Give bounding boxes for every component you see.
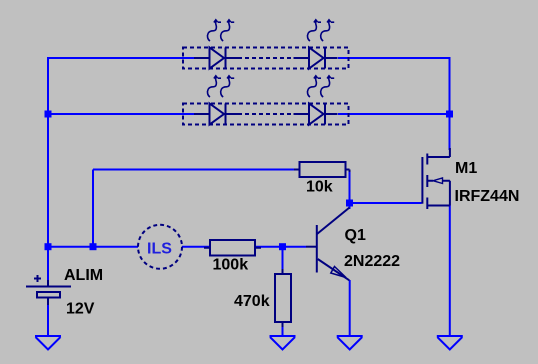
wire junction to 470k top	[282, 247, 284, 274]
junction node battery plus	[45, 243, 52, 250]
battery ALIM	[26, 275, 71, 305]
ground 470k	[270, 336, 296, 350]
wire source to ground	[449, 206, 451, 337]
junction node row2 right	[446, 111, 453, 118]
wire row2 left	[48, 113, 194, 115]
lamp enclosure row2	[183, 104, 349, 125]
LED D3 emission arrows	[207, 76, 234, 97]
dashed link row1	[238, 57, 295, 59]
ground emitter	[337, 336, 363, 350]
LED D4 emission arrows	[307, 76, 334, 97]
svg-text:M1: M1	[455, 160, 477, 177]
wire 10k left horizontal	[93, 169, 300, 171]
ground battery	[35, 336, 61, 350]
wire 100k to base	[255, 246, 306, 248]
svg-text:470k: 470k	[234, 293, 270, 310]
LED D1	[194, 48, 238, 69]
wire 470k bottom to ground	[282, 322, 284, 336]
ground source	[437, 336, 463, 350]
resistor 470k	[275, 269, 291, 327]
junction node row2 left	[45, 111, 52, 118]
LED D1 emission arrows	[207, 20, 234, 41]
mosfet M1	[422, 148, 450, 209]
LED D3	[194, 104, 238, 125]
svg-text:100k: 100k	[213, 257, 249, 274]
reed switch ILS	[138, 225, 182, 269]
wire row2 right	[338, 113, 450, 115]
dashed link row2	[238, 113, 295, 115]
wire 10k right vertical	[349, 171, 351, 203]
svg-text:2N2222: 2N2222	[344, 253, 400, 270]
wire 10k left vertical	[92, 170, 94, 247]
wire top rail row1 left	[48, 57, 194, 59]
LED D2	[294, 48, 338, 69]
wire ILS to 100k	[182, 246, 210, 248]
wire left vertical	[47, 57, 49, 283]
svg-text:ALIM: ALIM	[64, 267, 103, 284]
svg-text:IRFZ44N: IRFZ44N	[455, 188, 520, 205]
wire top rail row1 right	[338, 57, 450, 59]
lamp enclosure row1	[183, 48, 349, 69]
transistor Q1	[306, 208, 350, 281]
svg-text:12V: 12V	[66, 301, 95, 318]
junction node collector gate	[346, 200, 353, 207]
junction node 10k tap	[90, 243, 97, 250]
resistor 10k	[294, 162, 350, 177]
junction node base divider	[279, 243, 286, 250]
LED D4	[294, 104, 338, 125]
wire emitter to ground	[349, 280, 351, 336]
svg-text:Q1: Q1	[345, 227, 366, 244]
LED D2 emission arrows	[307, 20, 334, 41]
wire gate horizontal	[350, 202, 422, 204]
wire collector stub	[349, 203, 351, 209]
wire battery minus to ground	[47, 298, 49, 337]
wire right vertical to drain	[449, 57, 451, 150]
svg-text:10k: 10k	[306, 179, 333, 196]
resistor 100k	[204, 240, 261, 256]
wire bus battery to ILS	[48, 246, 138, 248]
svg-text:ILS: ILS	[147, 241, 172, 258]
